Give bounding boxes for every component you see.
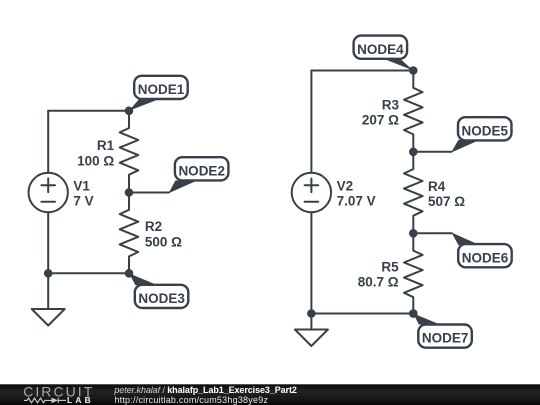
wire stub NODE2 [129,192,169,194]
svg-text:500 Ω: 500 Ω [145,234,182,249]
ground right [295,330,328,347]
svg-text:100 Ω: 100 Ω [77,153,114,168]
logo symbol resistor+diode [24,398,66,404]
wire ground stem left [47,273,49,309]
svg-text:peter.khalaf / khalafp_Lab1_Ex: peter.khalaf / khalafp_Lab1_Exercise3_Pa… [113,385,297,395]
node NODE6 [409,229,512,267]
junction dot bottom-left left circuit [44,269,53,278]
wire V2 top [310,71,312,173]
label V2 [337,179,376,209]
wire V1 top [47,111,49,173]
voltage source V2 [292,173,331,212]
svg-text:NODE6: NODE6 [462,250,509,265]
node NODE1 [125,76,188,115]
svg-text:R2: R2 [145,219,162,234]
resistor R2 [120,193,139,274]
svg-text:R4: R4 [428,179,446,194]
svg-text:LAB: LAB [67,395,94,405]
wire V1 bottom [47,212,49,273]
wire bottom horizontal right circuit [311,313,413,315]
node NODE4 [354,36,418,75]
junction dot bottom-right right circuit [409,309,418,318]
svg-text:http://circuitlab.com/cum53hg3: http://circuitlab.com/cum53hg38ye9z [114,395,268,405]
resistor R5 [404,233,423,313]
svg-text:R1: R1 [97,138,115,153]
svg-text:80.7 Ω: 80.7 Ω [358,275,399,290]
ground left [32,309,65,326]
node NODE2 [125,157,229,197]
svg-text:NODE3: NODE3 [138,291,185,306]
svg-text:NODE2: NODE2 [178,163,225,178]
resistor R4 [404,152,423,234]
svg-text:7 V: 7 V [73,194,93,209]
wire V2 bottom [310,212,312,313]
label R5 [358,259,399,289]
label R3 [362,97,400,127]
svg-text:NODE7: NODE7 [422,331,469,346]
resistor R1 [120,111,139,193]
wire stub NODE5 [413,151,451,153]
junction dot bottom-left right circuit [307,309,316,318]
node NODE3 [125,269,189,308]
wire stub NODE6 [413,232,452,234]
footer bar [0,383,540,405]
label V1 [73,179,93,209]
svg-text:NODE5: NODE5 [462,123,509,138]
svg-text:NODE4: NODE4 [357,42,404,57]
svg-text:7.07 V: 7.07 V [337,194,376,209]
wire top horizontal left circuit [48,110,129,112]
voltage source V1 [29,173,68,212]
node NODE7 [409,309,472,348]
label R2 [145,219,182,249]
label R1 [77,138,115,168]
label R4 [428,179,465,209]
wire ground stem right [310,314,312,330]
svg-text:V1: V1 [73,179,90,194]
svg-text:507 Ω: 507 Ω [428,194,465,209]
svg-text:207 Ω: 207 Ω [362,113,399,128]
wire bottom horizontal left circuit [48,272,129,274]
svg-text:V2: V2 [337,179,354,194]
node NODE5 [409,117,512,156]
resistor R3 [404,71,423,152]
svg-text:R3: R3 [382,97,400,112]
wire top horizontal right circuit [311,70,413,72]
svg-text:NODE1: NODE1 [138,82,185,97]
svg-text:R5: R5 [381,259,399,274]
